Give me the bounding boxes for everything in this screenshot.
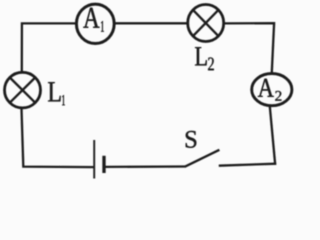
lamp L2 circle with cross	[188, 5, 224, 42]
label A2 inside ammeter A2	[258, 79, 282, 101]
label A1 inside ammeter A1	[83, 8, 104, 32]
wire: L1 top up to top-left corner, right to ammeter A1	[22, 23, 76, 71]
label S above switch	[186, 131, 197, 148]
battery: short thick plate (right)	[102, 156, 105, 173]
wire: battery to bottom-left corner, up to lamp L1 bottom	[22, 109, 95, 167]
ammeter A2 circle	[252, 74, 292, 106]
battery: long thin plate (left)	[93, 140, 95, 179]
lamp L1 circle with cross	[5, 72, 41, 108]
wire: ammeter A1 to lamp L2	[115, 22, 186, 24]
label L1 right of lamp L1	[48, 82, 65, 105]
wire: ammeter A2 down to bottom-right corner	[270, 106, 275, 165]
wire: bottom-right corner to switch right contact	[219, 164, 276, 166]
wire: switch pivot to battery positive plate	[105, 165, 184, 168]
switch S open blade	[185, 150, 220, 167]
wire: lamp L2 to top-right corner, down to ammeter A2	[225, 23, 274, 74]
ammeter A1 circle	[76, 4, 114, 43]
label L2 below lamp L2	[195, 47, 214, 70]
